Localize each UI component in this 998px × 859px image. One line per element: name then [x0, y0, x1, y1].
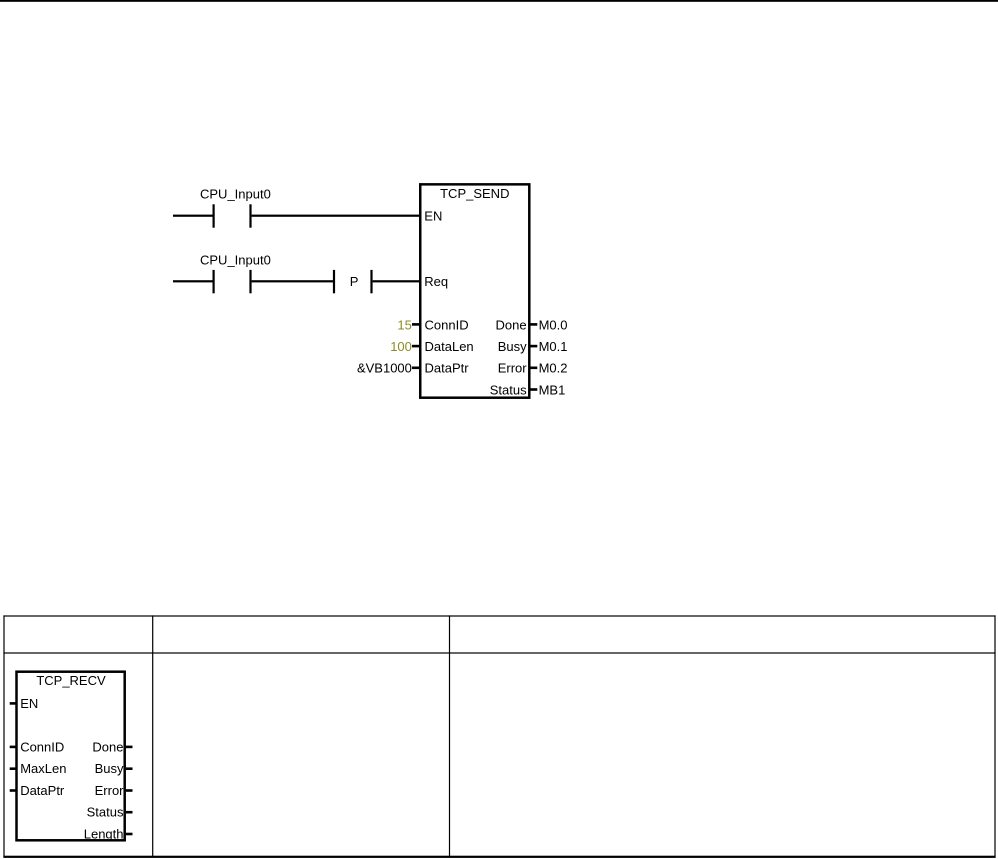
svg-text:TCP_RECV: TCP_RECV: [36, 673, 106, 688]
contact rung1 right bar: [249, 204, 251, 227]
svg-text:M0.2: M0.2: [539, 361, 568, 376]
svg-text:ConnID: ConnID: [20, 739, 64, 754]
wire rung2 middle segment: [252, 280, 333, 282]
table right border: [994, 615, 995, 857]
tick ConnID input: [412, 323, 419, 326]
svg-text:Error: Error: [95, 783, 125, 798]
tick Error output: [531, 367, 538, 370]
svg-text:M0.0: M0.0: [539, 317, 568, 332]
table column divider 1: [152, 615, 153, 857]
wire rung2 to Req: [373, 280, 420, 282]
svg-text:EN: EN: [424, 208, 442, 223]
svg-text:Done: Done: [496, 317, 527, 332]
tick Error output (RECV): [126, 789, 133, 792]
wire rung2 left segment: [173, 280, 213, 282]
svg-text:EN: EN: [20, 696, 38, 711]
svg-text:Length: Length: [84, 827, 124, 842]
svg-text:Done: Done: [92, 739, 123, 754]
tick DataPtr input: [412, 367, 419, 370]
svg-text:Status: Status: [87, 805, 124, 820]
wire rung1 left segment: [173, 215, 213, 217]
tick Length output (RECV): [126, 833, 133, 836]
function block TCP_RECV box: [17, 672, 125, 841]
svg-text:MB1: MB1: [539, 382, 566, 397]
svg-text:Status: Status: [490, 382, 527, 397]
svg-text:100: 100: [390, 339, 412, 354]
tick ConnID input (RECV): [10, 746, 17, 749]
table top border: [3, 615, 995, 616]
svg-text:CPU_Input0: CPU_Input0: [200, 253, 271, 268]
svg-text:DataPtr: DataPtr: [20, 783, 65, 798]
table bottom border: [3, 856, 995, 858]
tick DataLen input: [412, 345, 419, 348]
svg-text:TCP_SEND: TCP_SEND: [440, 186, 509, 201]
svg-text:MaxLen: MaxLen: [20, 761, 66, 776]
svg-text:CPU_Input0: CPU_Input0: [200, 186, 271, 201]
svg-text:Busy: Busy: [95, 761, 124, 776]
svg-text:DataLen: DataLen: [425, 339, 474, 354]
table column divider 2: [449, 615, 450, 857]
contact rung2 left bar: [213, 270, 215, 293]
contact rung2 right bar: [249, 270, 251, 293]
table header divider: [3, 652, 995, 653]
svg-text:DataPtr: DataPtr: [425, 361, 470, 376]
tick EN input (RECV): [10, 702, 17, 705]
tick Status output: [531, 388, 538, 391]
wire rung1 to EN: [252, 215, 420, 217]
svg-text:M0.1: M0.1: [539, 339, 568, 354]
tick DataPtr input (RECV): [10, 789, 17, 792]
table left border: [3, 615, 4, 857]
function block TCP_SEND box: [420, 184, 529, 397]
svg-text:Req: Req: [424, 274, 448, 289]
top border bar: [0, 0, 998, 2]
tick Done output (RECV): [126, 746, 133, 749]
svg-text:P: P: [350, 274, 359, 289]
tick Busy output (RECV): [126, 767, 133, 770]
svg-text:ConnID: ConnID: [425, 317, 469, 332]
tick Status output (RECV): [126, 811, 133, 814]
tick MaxLen input (RECV): [10, 767, 17, 770]
svg-text:&VB1000: &VB1000: [357, 361, 412, 376]
svg-text:15: 15: [397, 317, 411, 332]
tick Done output: [531, 323, 538, 326]
tick Busy output: [531, 345, 538, 348]
contact P left bar: [333, 270, 335, 293]
contact rung1 left bar: [213, 204, 215, 227]
svg-text:Error: Error: [498, 361, 528, 376]
svg-text:Busy: Busy: [498, 339, 527, 354]
contact P right bar: [370, 270, 372, 293]
